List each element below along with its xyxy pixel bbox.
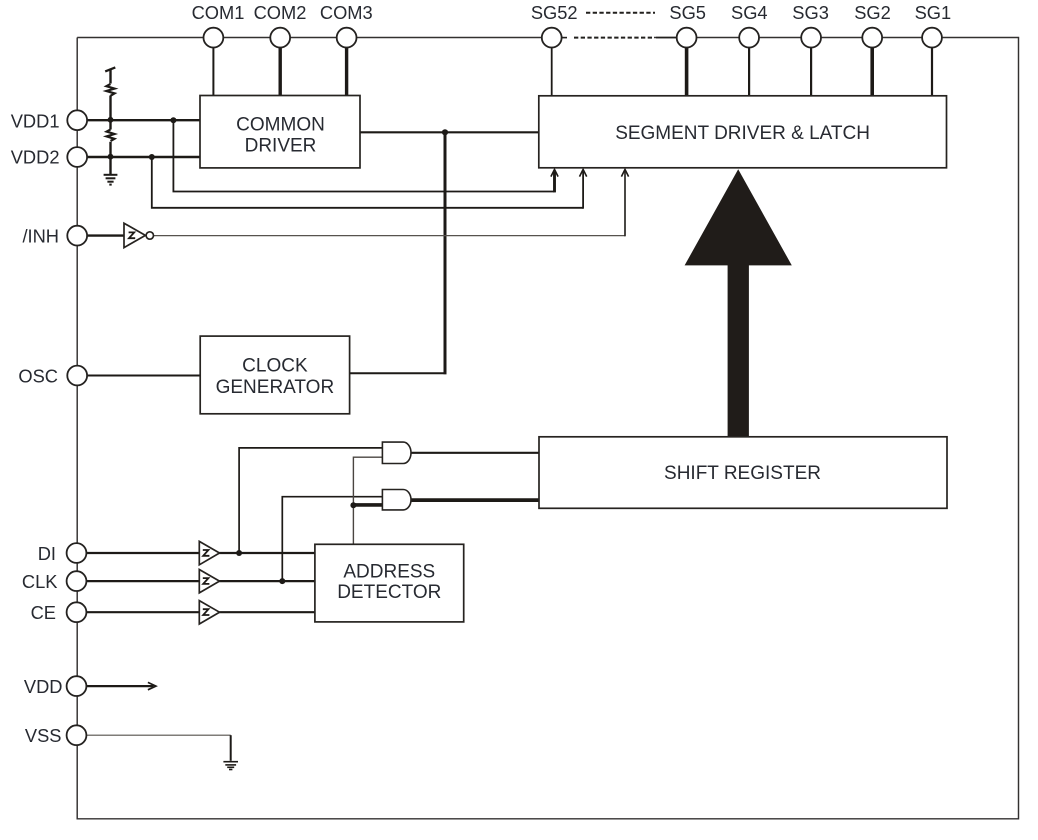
svg-text:SG5: SG5 [669, 2, 706, 23]
svg-text:SG4: SG4 [731, 2, 768, 23]
svg-text:SG2: SG2 [854, 2, 891, 23]
svg-text:CLK: CLK [22, 571, 58, 592]
svg-text:SG52: SG52 [531, 2, 578, 23]
svg-text:VDD: VDD [24, 676, 63, 697]
svg-text:SG3: SG3 [792, 2, 829, 23]
svg-text:COMMON: COMMON [236, 115, 325, 136]
svg-text:ADDRESS: ADDRESS [343, 562, 435, 583]
svg-text:DI: DI [38, 543, 56, 564]
svg-text:DETECTOR: DETECTOR [337, 582, 441, 603]
svg-text:COM3: COM3 [320, 2, 373, 23]
svg-text:VDD2: VDD2 [11, 147, 60, 168]
svg-text:SHIFT REGISTER: SHIFT REGISTER [664, 463, 821, 484]
svg-text:DRIVER: DRIVER [245, 136, 317, 157]
svg-text:GENERATOR: GENERATOR [216, 377, 335, 398]
svg-text:CLOCK: CLOCK [242, 356, 308, 377]
svg-text:VSS: VSS [25, 725, 62, 746]
svg-text:COM1: COM1 [192, 2, 245, 23]
svg-text:/INH: /INH [22, 226, 59, 247]
svg-text:SG1: SG1 [915, 2, 952, 23]
svg-text:CE: CE [31, 602, 56, 623]
svg-text:SEGMENT DRIVER & LATCH: SEGMENT DRIVER & LATCH [615, 123, 870, 144]
svg-text:VDD1: VDD1 [11, 110, 60, 131]
svg-text:OSC: OSC [18, 365, 58, 386]
svg-text:COM2: COM2 [254, 2, 307, 23]
